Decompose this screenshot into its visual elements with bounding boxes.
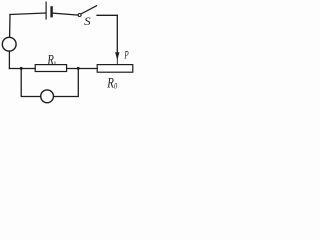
junction node B (77, 67, 80, 70)
wire right vertical down to slider (116, 15, 118, 57)
wire top-left horizontal (10, 13, 46, 15)
svg-text:S: S (84, 16, 91, 28)
rheostat R0 box (97, 65, 133, 73)
meter (circle) top left (2, 37, 16, 51)
meter (circle) bottom (41, 90, 54, 103)
junction node A (20, 67, 23, 70)
switch S blade (81, 6, 97, 14)
wire Rx to node B (67, 68, 98, 70)
slider arrowhead P (115, 52, 119, 60)
battery cell (46, 2, 52, 19)
wire meter bottom to corner (8, 51, 10, 68)
svg-text:P: P (124, 50, 129, 62)
wire switch to top-right corner (97, 14, 117, 16)
wire left vertical (corner to meter top) (9, 15, 11, 38)
wire meter bottom right to node B (54, 69, 79, 97)
wire middle horizontal left (9, 68, 35, 70)
wire branch down from node A (21, 69, 41, 97)
wire battery to switch (53, 13, 78, 15)
resistor Rx box (35, 65, 66, 72)
slider arrow stem into R0 (116, 57, 118, 64)
switch S pivot (78, 14, 81, 17)
